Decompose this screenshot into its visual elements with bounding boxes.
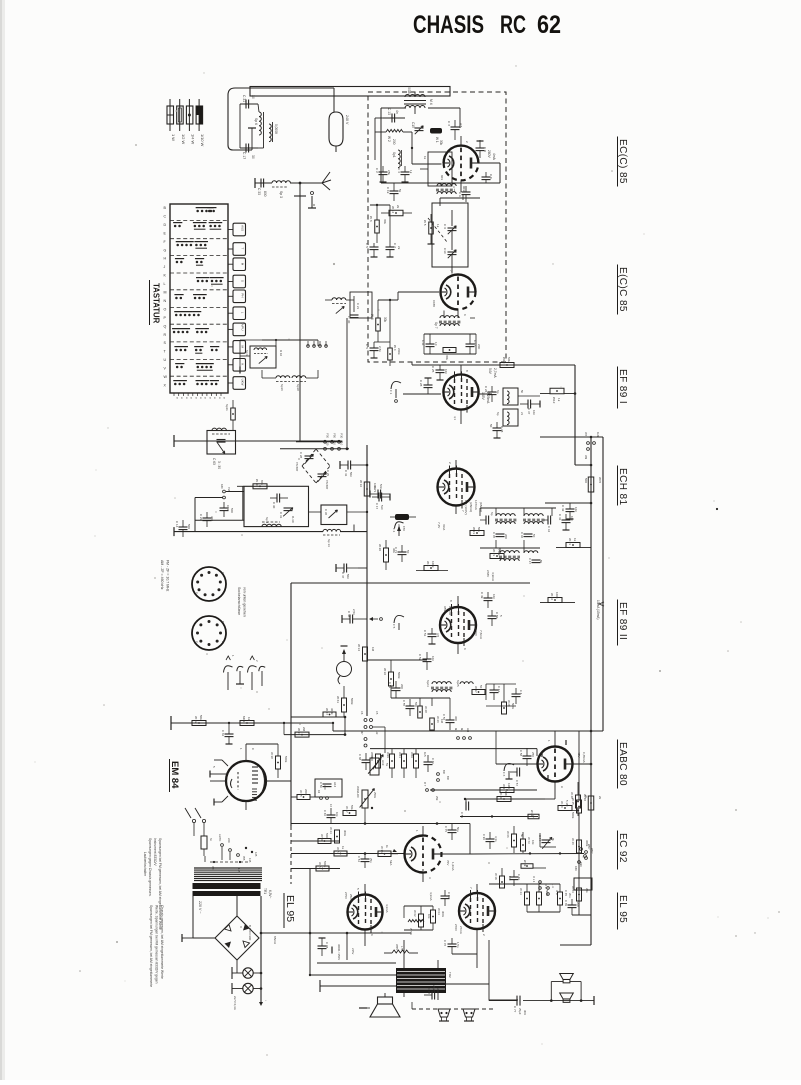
svg-text:Sp 3: Sp 3 bbox=[279, 191, 283, 198]
svg-text:0038: 0038 bbox=[432, 300, 436, 307]
wire x291 dashed lower bbox=[290, 826, 292, 884]
capacitor C13 bbox=[383, 108, 405, 123]
svg-text:2k: 2k bbox=[397, 246, 401, 250]
svg-text:215v: 215v bbox=[351, 948, 355, 955]
svg-text:C5: C5 bbox=[375, 711, 379, 715]
svg-text:W 5: W 5 bbox=[423, 220, 427, 226]
svg-text:500: 500 bbox=[187, 524, 191, 529]
wire EM84 right bbox=[246, 744, 291, 781]
svg-text:C 31: C 31 bbox=[279, 512, 283, 519]
capacitor C14 500 bbox=[174, 520, 191, 537]
label 0038 coil lower bbox=[432, 300, 436, 307]
keyboard frame bbox=[170, 204, 228, 393]
label 275V 25mA bbox=[344, 892, 353, 902]
pot H20 250k bbox=[356, 786, 377, 809]
svg-text:W 33: W 33 bbox=[297, 728, 301, 735]
svg-text:50: 50 bbox=[479, 685, 483, 689]
wire y986 bias bbox=[320, 980, 396, 992]
IF transformer output Sp7 bbox=[434, 311, 475, 329]
capacitor C77 series bbox=[489, 996, 551, 1016]
svg-text:F10: F10 bbox=[340, 440, 344, 445]
resistor 500 vertical bbox=[584, 477, 602, 492]
svg-text:500k: 500k bbox=[323, 861, 327, 868]
wire y790 bbox=[430, 789, 537, 791]
fuse Si bbox=[201, 830, 213, 856]
svg-text:O D: O D bbox=[544, 884, 548, 889]
socket circle 1 bbox=[192, 567, 226, 601]
SEA box W75 bbox=[378, 845, 398, 866]
svg-text:50k: 50k bbox=[199, 715, 203, 720]
svg-text:W 21: W 21 bbox=[568, 538, 572, 545]
resistor W21 1k bbox=[556, 538, 591, 548]
rail x579 bbox=[578, 731, 580, 915]
svg-text:W 77: W 77 bbox=[318, 862, 322, 869]
oscillator trimmer box bbox=[432, 203, 468, 267]
svg-text:W 58: W 58 bbox=[409, 928, 413, 935]
label EL 95 bbox=[617, 893, 628, 930]
svg-text:C 42: C 42 bbox=[561, 505, 565, 512]
resistor W36 500k bbox=[383, 664, 401, 692]
V4 pins bbox=[448, 460, 465, 514]
section box edge x603 bbox=[602, 437, 604, 731]
capacitor C25 10n bbox=[431, 365, 448, 380]
svg-text:C 57: C 57 bbox=[515, 780, 519, 786]
svg-text:C 44: C 44 bbox=[497, 686, 501, 692]
pot arrow left bbox=[370, 752, 383, 769]
capacitor C2 25k bbox=[375, 166, 391, 182]
wire det right bbox=[486, 684, 516, 706]
wire mesh osc2 bbox=[309, 511, 369, 532]
label 7,2V 3mA bbox=[437, 522, 446, 531]
ferrite rod lamp shape bbox=[329, 88, 349, 152]
svg-text:W 62: W 62 bbox=[413, 910, 417, 917]
svg-text:BD: BD bbox=[442, 770, 446, 774]
svg-text:Spannungen gegen Chassis gemes: Spannungen gegen Chassis gemessen. bbox=[148, 838, 152, 897]
svg-text:1 W: 1 W bbox=[171, 134, 176, 141]
feedback box bbox=[315, 779, 342, 797]
speaker feed bbox=[359, 993, 385, 1008]
capacitor C4 bbox=[397, 166, 413, 182]
svg-text:W 8: W 8 bbox=[426, 561, 430, 567]
trimmer C29 gang bbox=[318, 470, 331, 490]
svg-text:Q: Q bbox=[164, 324, 167, 328]
wire heater top bbox=[489, 884, 560, 912]
capacitor C12 bbox=[466, 334, 482, 354]
resistor W12 1k bbox=[540, 388, 576, 403]
svg-text:W 34: W 34 bbox=[357, 644, 361, 651]
svg-text:1k: 1k bbox=[436, 224, 440, 228]
svg-text:C 62: C 62 bbox=[221, 730, 225, 736]
wire speaker rail bbox=[488, 940, 490, 995]
svg-text:30k: 30k bbox=[383, 219, 387, 224]
svg-text:C 5: C 5 bbox=[365, 344, 369, 349]
phone jack symbol bbox=[337, 646, 352, 684]
svg-text:C 76: C 76 bbox=[443, 940, 447, 946]
resistor W16 on rail bbox=[359, 480, 377, 496]
capacitor C6 bottom bbox=[458, 186, 471, 202]
svg-text:30V: 30V bbox=[436, 988, 440, 993]
resistor W40 1M4 bbox=[497, 791, 511, 802]
coil cans Sp20 Sp21 bbox=[496, 388, 524, 426]
terminals BD BD bbox=[437, 770, 450, 781]
svg-text:10k: 10k bbox=[335, 812, 339, 817]
svg-text:W 46: W 46 bbox=[560, 801, 564, 808]
svg-text:F50: F50 bbox=[333, 433, 337, 438]
svg-text:2M: 2M bbox=[302, 727, 306, 732]
svg-text:C 68: C 68 bbox=[358, 754, 362, 760]
svg-text:W 35: W 35 bbox=[299, 790, 303, 797]
coil Sp1 bbox=[392, 150, 402, 168]
svg-text:500k: 500k bbox=[397, 672, 401, 679]
wire grid V3 bbox=[403, 393, 441, 395]
svg-text:1,2mA: 1,2mA bbox=[451, 862, 455, 871]
svg-text:C 31: C 31 bbox=[242, 95, 246, 102]
svg-text:300k: 300k bbox=[330, 708, 334, 715]
label TASTATUR bbox=[150, 280, 161, 325]
hook F1 bbox=[389, 381, 401, 402]
wire V2 left bbox=[374, 292, 439, 342]
svg-text:S: S bbox=[240, 280, 244, 282]
capacitor C54 25n bbox=[357, 854, 373, 869]
svg-text:C 28: C 28 bbox=[299, 452, 303, 458]
wire bus y441 bbox=[174, 435, 342, 447]
wire y841 bbox=[291, 840, 340, 842]
svg-text:Sp: Sp bbox=[496, 412, 500, 416]
hook F6 bbox=[502, 763, 514, 779]
keyboard bottom terminals bbox=[174, 393, 227, 399]
svg-text:R: R bbox=[164, 333, 167, 337]
svg-text:200: 200 bbox=[400, 684, 404, 689]
wire y449 bus bbox=[280, 447, 349, 450]
keyboard row letters bbox=[164, 206, 168, 387]
svg-text:25n: 25n bbox=[369, 858, 373, 863]
label 215v bbox=[351, 948, 355, 955]
svg-text:C 60: C 60 bbox=[431, 758, 435, 764]
svg-text:107mA: 107mA bbox=[474, 500, 478, 511]
resistor W13 50k bbox=[470, 527, 484, 536]
svg-text:Sp25: Sp25 bbox=[456, 680, 460, 687]
svg-text:4,3mA: 4,3mA bbox=[385, 904, 389, 913]
svg-text:135: 135 bbox=[248, 858, 252, 863]
svg-text:3,3n: 3,3n bbox=[494, 836, 498, 842]
wire TR2 connections bbox=[404, 940, 438, 1000]
legend resistor 1 W bbox=[167, 99, 176, 141]
svg-text:C15: C15 bbox=[411, 122, 415, 128]
capacitor C42 10n bbox=[561, 503, 578, 519]
V10 pin stubs bbox=[210, 748, 255, 806]
svg-text:500: 500 bbox=[230, 508, 234, 513]
V7 pins bbox=[415, 826, 432, 882]
svg-text:1k: 1k bbox=[409, 170, 413, 174]
svg-text:2k: 2k bbox=[396, 205, 400, 209]
svg-text:C 33: C 33 bbox=[257, 188, 261, 195]
resistor W47 50k bbox=[343, 805, 356, 816]
speaker loop wires bbox=[550, 982, 594, 1006]
svg-text:W 36: W 36 bbox=[383, 668, 387, 675]
resistor W77 500k bbox=[316, 861, 329, 871]
svg-text:W 20: W 20 bbox=[378, 544, 382, 551]
svg-text:2,5n: 2,5n bbox=[352, 609, 356, 615]
svg-text:PH: PH bbox=[240, 293, 244, 297]
svg-text:055: 055 bbox=[242, 856, 246, 861]
resistor W25 30k bbox=[443, 348, 456, 361]
svg-text:O: O bbox=[164, 307, 167, 311]
svg-text:F 2: F 2 bbox=[392, 528, 396, 533]
osc coil cluster right bbox=[325, 292, 372, 324]
wire x310 output feed bbox=[309, 869, 396, 976]
svg-text:W 48: W 48 bbox=[570, 792, 574, 799]
capacitor C59 bbox=[460, 799, 469, 818]
svg-text:M: M bbox=[164, 291, 167, 295]
svg-text:21: 21 bbox=[520, 412, 524, 416]
hook F5 bbox=[392, 615, 404, 630]
wire y583 AF top bbox=[291, 582, 530, 584]
svg-text:von unten gesehen: von unten gesehen bbox=[243, 587, 247, 617]
svg-text:W 2: W 2 bbox=[387, 136, 391, 142]
svg-text:4mA: 4mA bbox=[492, 153, 496, 161]
capacitor C58 250 bbox=[519, 748, 535, 766]
resistor W66 5k bbox=[506, 826, 524, 853]
trimmer C31 inside bbox=[279, 508, 295, 523]
resistor W45 500k bbox=[571, 798, 582, 819]
svg-text:C 54: C 54 bbox=[357, 856, 361, 862]
svg-text:C 46: C 46 bbox=[520, 532, 524, 538]
ground stub 2 bbox=[308, 192, 316, 209]
wire EABC mesh bbox=[496, 731, 592, 765]
svg-text:C 4: C 4 bbox=[397, 168, 401, 173]
svg-text:W 66: W 66 bbox=[506, 831, 510, 838]
tube V6 EABC80 bbox=[538, 747, 573, 782]
svg-text:N: N bbox=[164, 299, 167, 303]
capacitor C49 10n bbox=[480, 592, 496, 608]
choke L5 bbox=[384, 944, 418, 953]
wire y799 plate EABC bbox=[464, 792, 555, 800]
terminal stub bbox=[294, 183, 306, 196]
label 300/350V bbox=[332, 944, 341, 960]
svg-text:Sp 9: Sp 9 bbox=[245, 350, 249, 356]
svg-text:1M: 1M bbox=[247, 717, 251, 722]
V6 pins bbox=[547, 731, 564, 792]
capacitor C20 300 bbox=[199, 512, 214, 527]
svg-text:300: 300 bbox=[454, 716, 458, 721]
svg-text:W 44: W 44 bbox=[329, 827, 333, 834]
svg-text:C10: C10 bbox=[443, 248, 447, 254]
svg-text:220 V ~: 220 V ~ bbox=[198, 901, 202, 914]
capacitor C33 800 bbox=[255, 179, 272, 197]
wire plate V1 bbox=[381, 108, 500, 183]
wire y868 bbox=[291, 868, 340, 870]
capacitor C7 bbox=[386, 240, 402, 257]
svg-text:4,3mA: 4,3mA bbox=[429, 892, 433, 901]
labels ECH81 voltages bbox=[464, 500, 483, 515]
svg-text:C 3: C 3 bbox=[447, 121, 451, 126]
svg-text:13mA (15mA): 13mA (15mA) bbox=[596, 600, 600, 620]
wire transformer down bbox=[193, 896, 261, 1002]
svg-text:C 21: C 21 bbox=[356, 303, 360, 309]
svg-text:C 66: C 66 bbox=[323, 810, 327, 816]
svg-text:W 44: W 44 bbox=[519, 888, 523, 895]
svg-text:F30: F30 bbox=[326, 433, 330, 438]
IF transformer 2 upper bbox=[480, 512, 518, 539]
wire y816 bbox=[460, 815, 538, 817]
capacitor C30 inside bbox=[270, 494, 288, 509]
capacitor C8 bottom bbox=[482, 172, 494, 183]
wire y734 W33 bbox=[283, 722, 347, 736]
wire osc mesh a bbox=[240, 339, 318, 374]
svg-text:3 : 30: 3 : 30 bbox=[217, 461, 221, 469]
wire osc1 left bbox=[195, 486, 244, 531]
tube V2 ECC85 triode b bbox=[441, 275, 476, 310]
svg-text:W 27: W 27 bbox=[474, 686, 478, 693]
dial lamps bbox=[232, 967, 262, 994]
capacitor C17 5nF bbox=[372, 493, 390, 511]
svg-text:10n: 10n bbox=[532, 410, 536, 415]
bridge connections bbox=[182, 856, 237, 973]
svg-text:C 56: C 56 bbox=[442, 714, 446, 720]
terminals W57 F90 bbox=[579, 844, 591, 867]
svg-text:D 7: D 7 bbox=[423, 782, 427, 787]
svg-text:Sp18: Sp18 bbox=[296, 384, 300, 391]
svg-text:C 67: C 67 bbox=[517, 874, 521, 880]
svg-text:C 53: C 53 bbox=[388, 682, 392, 688]
svg-text:C 2: C 2 bbox=[375, 168, 379, 173]
antenna symbol bbox=[312, 172, 331, 190]
svg-text:AUS: AUS bbox=[240, 225, 244, 231]
label bottom terminal bbox=[259, 1000, 268, 1006]
terminals W7 W9 bbox=[584, 432, 600, 460]
note AM-ZF FM-ZF bbox=[160, 560, 170, 592]
svg-text:D10: D10 bbox=[326, 440, 330, 446]
resistor W69 bbox=[521, 860, 546, 868]
wire loop inner bbox=[240, 104, 264, 150]
svg-text:F4: F4 bbox=[329, 804, 333, 808]
resistor W2 200 zigzag bbox=[386, 129, 403, 144]
speaker main bbox=[370, 997, 400, 1017]
svg-text:D: D bbox=[164, 223, 167, 227]
label 200V 5mA bbox=[487, 150, 496, 161]
keyboard buttons bbox=[228, 223, 246, 389]
mains switch bbox=[185, 808, 206, 836]
svg-text:W 60: W 60 bbox=[530, 810, 534, 817]
gang dashed diamond bbox=[302, 449, 330, 483]
svg-text:H19: H19 bbox=[381, 760, 385, 766]
keyboard contacts bbox=[172, 208, 224, 386]
capacitor C75 50u bbox=[444, 824, 460, 841]
svg-text:EC(C) 85: EC(C) 85 bbox=[617, 139, 628, 184]
resistor W33 2M bbox=[295, 727, 309, 737]
svg-text:603: 603 bbox=[440, 175, 444, 180]
capacitor C31 bbox=[240, 95, 258, 109]
svg-text:Werte. Spannungen bei FM gemes: Werte. Spannungen bei FM gemessen 833Ω/V… bbox=[155, 905, 159, 984]
selector dashed bbox=[210, 861, 248, 873]
svg-text:H16: H16 bbox=[333, 782, 337, 788]
svg-text:Laufwerkschalter: Laufwerkschalter bbox=[143, 852, 147, 877]
svg-text:2k: 2k bbox=[598, 796, 602, 800]
svg-text:6,3V~: 6,3V~ bbox=[268, 890, 272, 899]
svg-text:AUTC: AUTC bbox=[218, 834, 222, 841]
capacitor C3 bbox=[447, 120, 463, 140]
label 45V 0,35mA bbox=[577, 752, 586, 764]
svg-text:H2: H2 bbox=[375, 731, 379, 735]
resistor W5 bbox=[423, 220, 440, 234]
resistor W41 1M4 bbox=[500, 783, 514, 793]
resistor W62 10k bbox=[413, 910, 431, 927]
svg-text:25µF: 25µF bbox=[518, 1008, 522, 1015]
wire y853 grid bbox=[291, 852, 404, 855]
svg-text:C 6: C 6 bbox=[458, 192, 462, 197]
svg-text:20n: 20n bbox=[568, 893, 572, 898]
wire V9 down bbox=[446, 940, 489, 984]
wire x367 long vertical bbox=[366, 445, 368, 716]
svg-text:D-30: D-30 bbox=[291, 516, 295, 523]
tube V1 ECC85 triode a bbox=[444, 146, 479, 181]
svg-text:M2: M2 bbox=[454, 728, 458, 732]
capacitor C53 200 bbox=[388, 681, 404, 698]
tone pot C74 bbox=[538, 833, 556, 849]
bracket 13mA bbox=[596, 600, 604, 620]
svg-text:EABC 80: EABC 80 bbox=[617, 742, 628, 786]
svg-text:300: 300 bbox=[323, 785, 327, 790]
svg-text:C 41: C 41 bbox=[558, 514, 562, 521]
note spannungen bbox=[148, 838, 162, 930]
label 4,3mA b bbox=[429, 892, 433, 901]
svg-text:85mA: 85mA bbox=[273, 936, 277, 945]
svg-text:W 22: W 22 bbox=[550, 593, 554, 600]
svg-text:J: J bbox=[164, 265, 166, 269]
svg-text:145V: 145V bbox=[481, 392, 485, 401]
svg-text:100k: 100k bbox=[431, 561, 435, 568]
arrow terminal bbox=[369, 617, 382, 621]
svg-text:10n: 10n bbox=[492, 594, 496, 599]
svg-text:W 69: W 69 bbox=[523, 860, 527, 867]
svg-text:200k: 200k bbox=[304, 789, 308, 796]
zigzag NTC bbox=[408, 920, 424, 935]
resistor W11 bbox=[225, 400, 235, 430]
svg-text:25µ/: 25µ/ bbox=[432, 985, 436, 991]
svg-text:180: 180 bbox=[220, 484, 224, 489]
svg-text:C 8: C 8 bbox=[483, 147, 487, 152]
svg-text:240 V: 240 V bbox=[345, 115, 349, 125]
svg-text:W 30: W 30 bbox=[255, 479, 259, 487]
wire plate V3 net bbox=[479, 394, 541, 396]
wire V7 plate bbox=[437, 824, 470, 855]
V9 pins bbox=[469, 884, 486, 940]
svg-text:50: 50 bbox=[489, 424, 493, 428]
coil Sp6 bbox=[254, 112, 264, 135]
resistor W50 500 bbox=[318, 833, 331, 844]
hook F2 bbox=[392, 522, 404, 536]
svg-text:K: K bbox=[240, 363, 244, 365]
wire y717 bbox=[291, 716, 346, 735]
svg-text:L 3: L 3 bbox=[551, 884, 555, 888]
junction box lower right bbox=[574, 878, 592, 890]
capacitor C66 bbox=[323, 808, 339, 824]
svg-text:W76: W76 bbox=[598, 477, 602, 484]
svg-text:C 77: C 77 bbox=[513, 1006, 517, 1013]
svg-text:1M4: 1M4 bbox=[507, 783, 511, 789]
svg-text:W 16: W 16 bbox=[359, 480, 363, 487]
svg-text:W 32: W 32 bbox=[194, 716, 198, 723]
trimmer C15 bbox=[411, 122, 424, 134]
svg-text:C13: C13 bbox=[226, 505, 230, 511]
rail elbow y465 bbox=[575, 464, 592, 467]
terminals D7 bbox=[423, 782, 439, 801]
svg-text:W 61: W 61 bbox=[336, 696, 340, 703]
svg-text:BD: BD bbox=[446, 776, 450, 780]
svg-text:100k: 100k bbox=[555, 592, 559, 599]
bus bar rectangle bbox=[250, 87, 450, 97]
svg-text:200: 200 bbox=[504, 534, 508, 539]
